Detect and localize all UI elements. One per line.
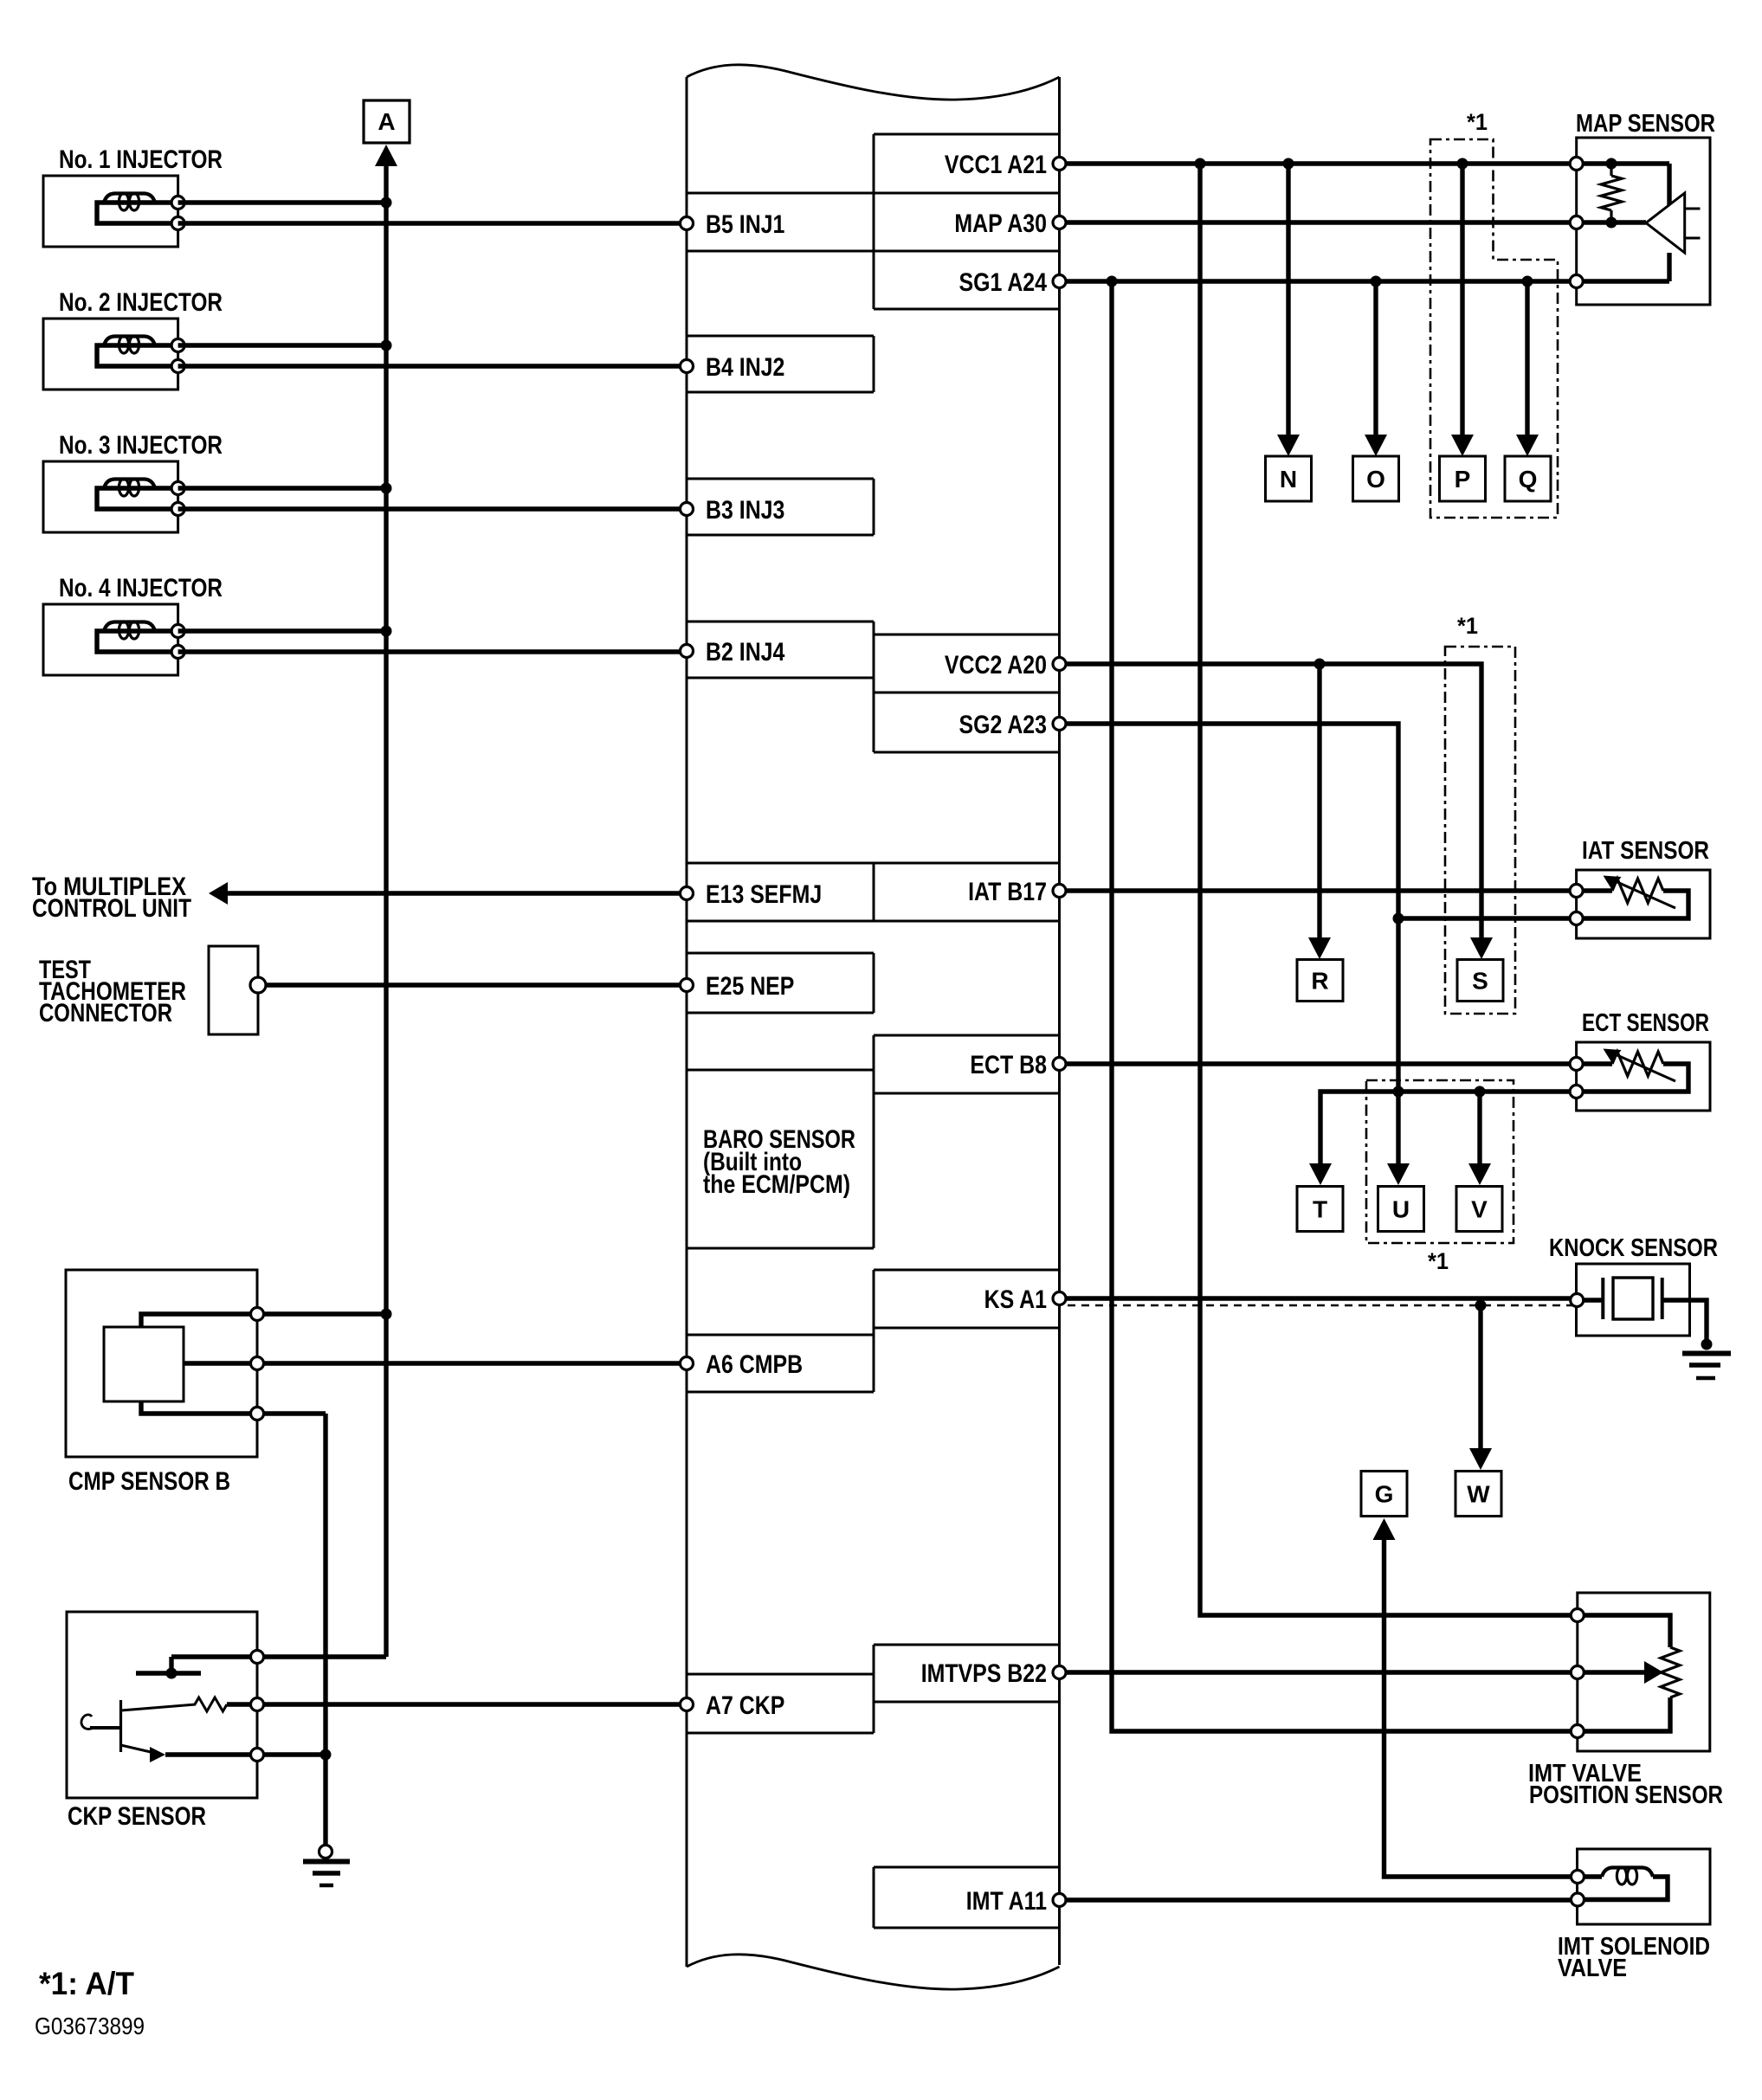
svg-text:B5 INJ1: B5 INJ1 [706, 210, 784, 239]
svg-text:No. 1 INJECTOR: No. 1 INJECTOR [59, 145, 223, 174]
svg-text:CONTROL UNIT: CONTROL UNIT [32, 894, 191, 923]
svg-text:*1: A/T: *1: A/T [39, 1966, 134, 2001]
svg-text:O: O [1366, 466, 1385, 493]
svg-text:N: N [1280, 466, 1297, 493]
svg-text:CONNECTOR: CONNECTOR [39, 999, 172, 1027]
svg-text:IAT SENSOR: IAT SENSOR [1582, 837, 1709, 865]
svg-text:CMP SENSOR B: CMP SENSOR B [68, 1467, 230, 1496]
svg-text:No. 3 INJECTOR: No. 3 INJECTOR [59, 431, 223, 460]
svg-text:W: W [1467, 1481, 1490, 1508]
svg-text:VCC1 A21: VCC1 A21 [945, 151, 1047, 179]
svg-text:CKP SENSOR: CKP SENSOR [68, 1802, 206, 1831]
svg-text:SG2 A23: SG2 A23 [959, 711, 1048, 739]
svg-text:G: G [1375, 1481, 1394, 1508]
svg-text:S: S [1472, 968, 1488, 995]
svg-text:*1: *1 [1467, 109, 1488, 135]
svg-text:E13 SEFMJ: E13 SEFMJ [706, 880, 822, 909]
svg-text:P: P [1455, 466, 1471, 493]
svg-text:IAT B17: IAT B17 [968, 878, 1047, 906]
svg-text:ECT SENSOR: ECT SENSOR [1582, 1009, 1709, 1037]
svg-text:B4 INJ2: B4 INJ2 [706, 353, 784, 382]
svg-text:*1: *1 [1428, 1248, 1449, 1274]
svg-text:SG1 A24: SG1 A24 [959, 268, 1048, 297]
svg-text:*1: *1 [1457, 613, 1478, 639]
svg-text:A6 CMPB: A6 CMPB [706, 1350, 803, 1379]
svg-text:Q: Q [1519, 466, 1538, 493]
svg-text:No. 2 INJECTOR: No. 2 INJECTOR [59, 288, 223, 317]
svg-text:T: T [1313, 1196, 1327, 1223]
svg-text:R: R [1311, 968, 1328, 995]
svg-text:VCC2 A20: VCC2 A20 [945, 651, 1047, 680]
svg-text:MAP A30: MAP A30 [954, 209, 1047, 238]
svg-text:VALVE: VALVE [1558, 1955, 1627, 1982]
svg-text:B3 INJ3: B3 INJ3 [706, 496, 784, 525]
svg-text:No. 4 INJECTOR: No. 4 INJECTOR [59, 574, 223, 602]
svg-text:V: V [1471, 1196, 1488, 1223]
svg-text:POSITION SENSOR: POSITION SENSOR [1529, 1781, 1723, 1809]
svg-text:E25 NEP: E25 NEP [706, 972, 794, 1001]
svg-text:B2 INJ4: B2 INJ4 [706, 638, 785, 667]
svg-text:ECT B8: ECT B8 [970, 1051, 1047, 1079]
svg-text:U: U [1392, 1196, 1410, 1223]
svg-text:KS A1: KS A1 [984, 1285, 1047, 1314]
svg-text:A7 CKP: A7 CKP [706, 1691, 784, 1720]
svg-text:IMT A11: IMT A11 [966, 1887, 1047, 1916]
svg-text:G03673899: G03673899 [35, 2013, 145, 2039]
svg-text:KNOCK SENSOR: KNOCK SENSOR [1549, 1234, 1718, 1262]
svg-text:A: A [378, 108, 395, 135]
svg-text:MAP SENSOR: MAP SENSOR [1576, 110, 1715, 138]
svg-text:the ECM/PCM): the ECM/PCM) [703, 1170, 850, 1199]
svg-text:IMTVPS B22: IMTVPS B22 [921, 1659, 1047, 1688]
